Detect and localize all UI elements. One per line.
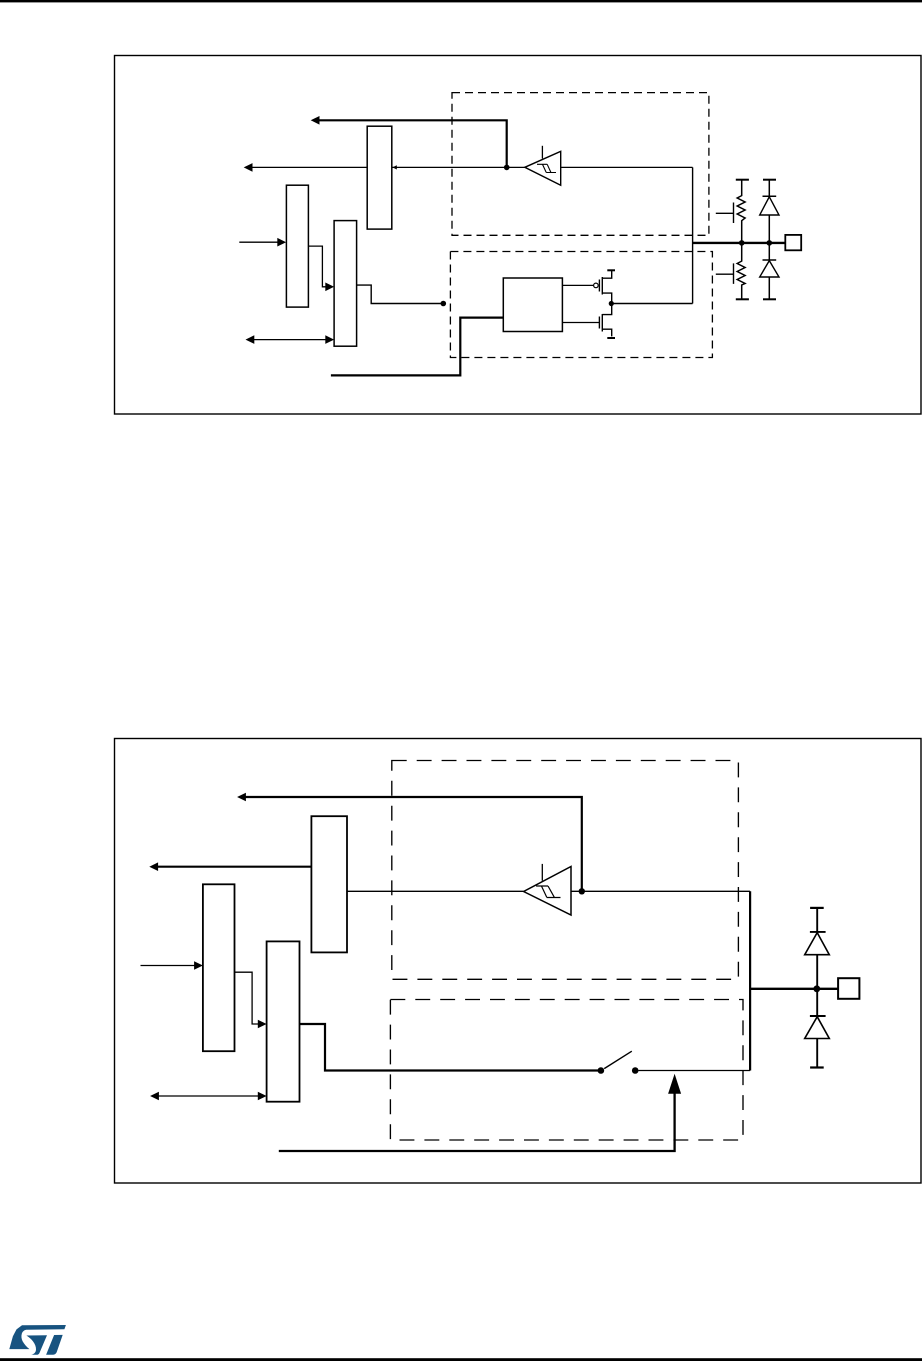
output data register block (334, 221, 357, 347)
diode to VSS (760, 243, 779, 299)
output driver dashed box (450, 252, 712, 358)
resistor pull-up (737, 180, 745, 243)
gate tick pull-up (716, 203, 734, 224)
wire: output register to switch thick (300, 1024, 599, 1071)
arrowhead input left (244, 163, 253, 172)
I/O pin pad square 2 (838, 978, 859, 999)
node: pull junction on pad line (739, 240, 745, 246)
node: mos drain junction (609, 301, 614, 306)
output control block (503, 278, 562, 332)
node: read tap junction (504, 165, 510, 171)
node: trigger output junction 2 (579, 888, 585, 894)
wire: drain to pad branch (611, 303, 692, 305)
input data register block 2 (311, 816, 347, 952)
header rule (0, 0, 922, 2)
wire: I/O pad thick line 2 (750, 988, 838, 990)
diode to VSS 2 (805, 989, 830, 1068)
transistor P-MOS (562, 270, 615, 303)
wire: trigger input from pad (561, 166, 693, 168)
wire: write line 2 (141, 965, 196, 967)
wire: read data thick line (318, 120, 507, 167)
node: analog stub (441, 301, 447, 307)
wire: analog line thick bottom (279, 1092, 675, 1151)
schmitt trigger U2 (524, 864, 571, 915)
wire: I/O pad thick line (693, 242, 786, 244)
schmitt trigger U1 (525, 146, 561, 185)
wire: register to trigger 2 (347, 890, 524, 892)
arrowhead write (277, 238, 286, 247)
wire: input path register to trigger (392, 166, 525, 168)
VSS bar below pull-down (736, 298, 749, 300)
input driver dashed box 2 (392, 761, 739, 980)
wire: read arrow thick 2 (157, 866, 312, 868)
node: diode junction on pad line (767, 240, 773, 246)
VDD bar above diode 2 (810, 907, 824, 909)
input data register block (367, 126, 392, 229)
output data register block 2 (267, 941, 300, 1101)
wire: output register to analog node (357, 285, 444, 303)
read/write double arrow (246, 335, 335, 344)
gate tick pull-down (716, 263, 734, 284)
wire: input path left of register (252, 166, 368, 168)
output driver dashed box 2 (390, 1000, 743, 1141)
I/O pin pad square (785, 235, 801, 250)
input driver dashed box (452, 93, 709, 236)
arrowhead into output register 2 (258, 1020, 267, 1029)
analog switch (598, 1051, 750, 1074)
arrowhead into input register (393, 165, 397, 169)
diode to VDD 2 (805, 908, 830, 989)
node: pad junction 2 (813, 985, 820, 992)
VDD bar above top diode (763, 179, 776, 181)
wire: pad vertical branch 2 (749, 891, 751, 1070)
wire: trigger to pad branch 2 (571, 890, 750, 892)
footer rule (0, 1358, 922, 1361)
wire: write line (239, 241, 278, 243)
arrowhead read 2 (237, 793, 246, 802)
wire: read data thick line 2 (245, 797, 582, 891)
VSS bar below diode 2 (810, 1066, 824, 1068)
figure 2 frame (115, 739, 922, 1184)
figure 1 frame (115, 56, 922, 415)
VSS bar below bottom diode (763, 298, 776, 300)
arrowhead up analog (668, 1074, 681, 1094)
resistor pull-down (737, 243, 745, 299)
wire: alternate function output thick (331, 318, 503, 376)
VDD bar above pull-up (736, 179, 749, 181)
bit set/reset register block (286, 185, 308, 307)
transistor N-MOS (562, 304, 615, 339)
wire: set/reset to output register (308, 246, 326, 287)
arrowhead into output register (325, 283, 334, 292)
ST logo (9, 1325, 66, 1355)
arrowhead read (311, 116, 320, 125)
read/write double arrow 2 (150, 1092, 267, 1101)
arrowhead write 2 (194, 961, 203, 970)
wire: pad vertical branch (692, 167, 694, 303)
arrowhead read thick 2 (149, 862, 158, 871)
wire: set/reset to output register 2 (235, 972, 259, 1024)
diode to VDD (760, 180, 779, 243)
bit set/reset register block 2 (203, 884, 235, 1051)
